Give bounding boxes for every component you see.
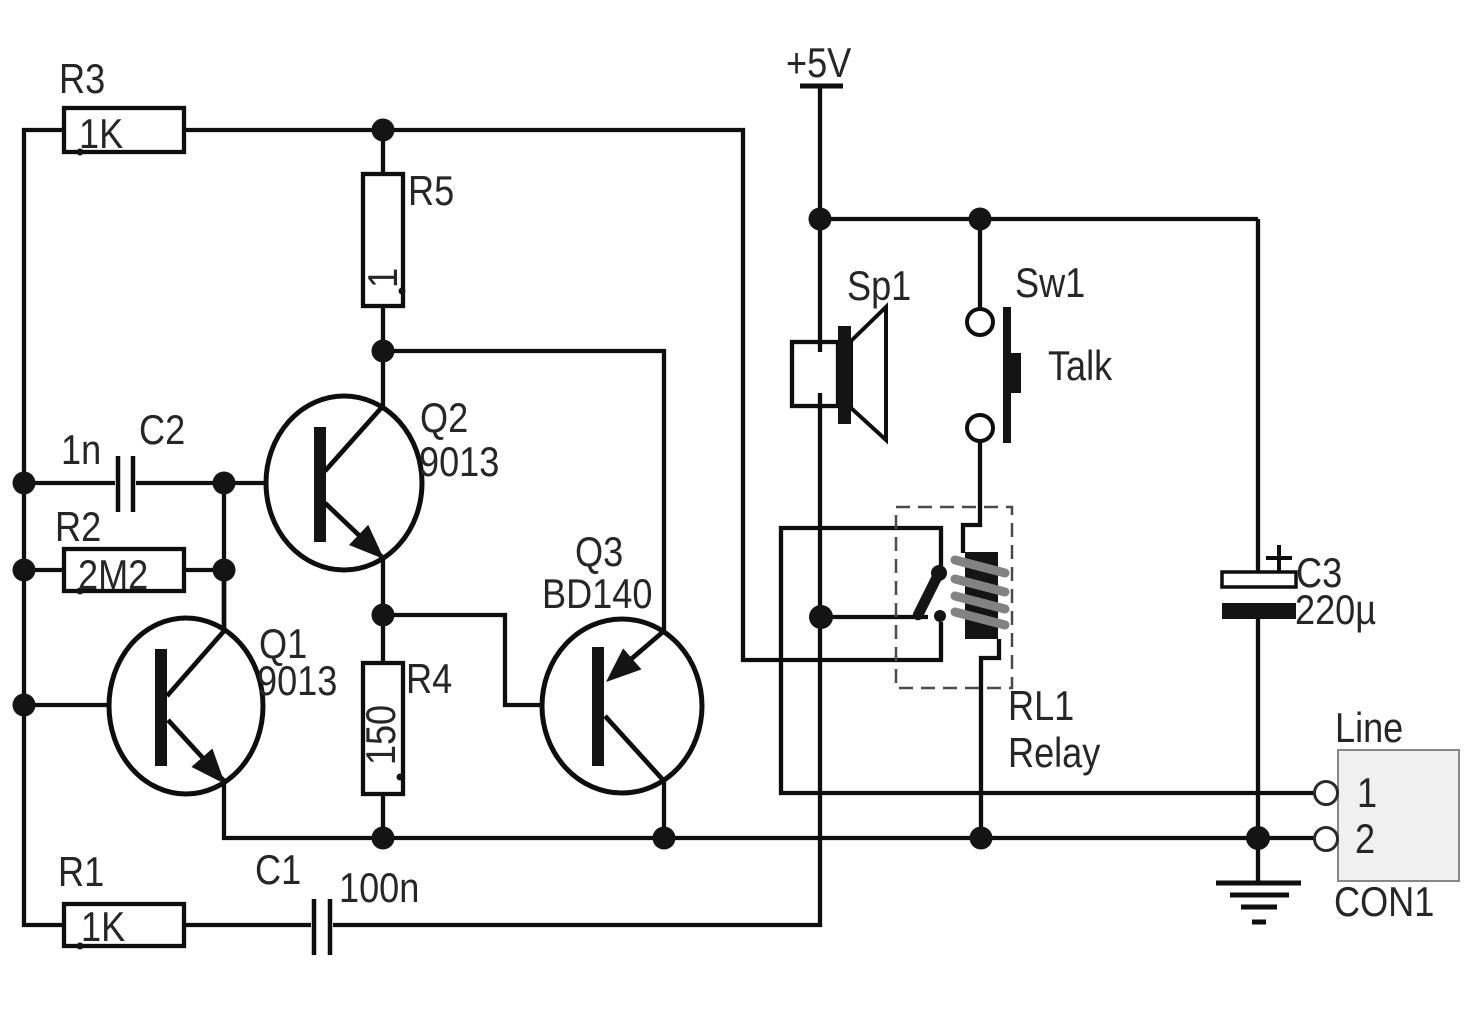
- svg-text:Q2: Q2: [420, 396, 468, 442]
- svg-text:2: 2: [1355, 817, 1375, 863]
- svg-text:Sw1: Sw1: [1015, 261, 1085, 307]
- svg-text:100n: 100n: [339, 866, 419, 912]
- svg-text:C1: C1: [255, 848, 301, 894]
- svg-text:1: 1: [1357, 771, 1377, 817]
- svg-text:BD140: BD140: [542, 572, 652, 618]
- svg-text:220µ: 220µ: [1295, 588, 1376, 634]
- svg-text:CON1: CON1: [1334, 880, 1434, 926]
- svg-text:1: 1: [361, 268, 407, 288]
- svg-text:R4: R4: [406, 657, 452, 703]
- svg-text:Line: Line: [1335, 706, 1403, 752]
- svg-text:C2: C2: [139, 408, 185, 454]
- svg-text:Talk: Talk: [1048, 344, 1113, 390]
- svg-text:R3: R3: [59, 57, 105, 103]
- svg-text:+5V: +5V: [786, 41, 851, 87]
- svg-text:150: 150: [359, 705, 405, 765]
- svg-text:RL1: RL1: [1008, 684, 1074, 730]
- svg-text:1K: 1K: [79, 112, 123, 158]
- svg-text:R1: R1: [58, 850, 104, 896]
- svg-text:R5: R5: [408, 169, 454, 215]
- svg-text:Q3: Q3: [575, 530, 623, 576]
- svg-text:Sp1: Sp1: [847, 264, 911, 310]
- svg-text:R2: R2: [55, 505, 101, 551]
- svg-text:Relay: Relay: [1008, 731, 1101, 777]
- svg-text:9013: 9013: [419, 440, 499, 486]
- svg-text:1n: 1n: [61, 428, 101, 474]
- svg-text:1K: 1K: [81, 905, 125, 951]
- svg-text:2M2: 2M2: [78, 553, 148, 599]
- svg-text:9013: 9013: [257, 659, 337, 705]
